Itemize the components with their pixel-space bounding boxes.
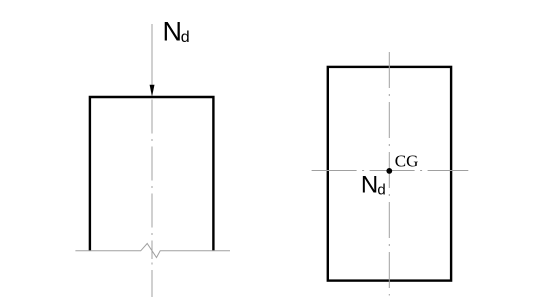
load arrow Nd head: [150, 85, 155, 97]
svg-text:CG: CG: [395, 151, 419, 170]
section vertical centerline: [388, 52, 390, 296]
svg-text:d: d: [181, 29, 190, 46]
label Nd (left): [163, 17, 190, 47]
column centerline (vertical dash-dot): [151, 100, 153, 252]
column outline (left figure): [90, 97, 213, 251]
break line with zigzag (column cut): [75, 244, 230, 258]
section horizontal centerline: [312, 170, 469, 172]
column centerline below break: [151, 251, 153, 297]
svg-text:N: N: [163, 17, 183, 47]
centroid dot CG: [386, 168, 392, 174]
section outline (right figure): [328, 67, 451, 281]
svg-text:N: N: [361, 171, 378, 198]
label Nd (right): [361, 171, 386, 198]
svg-text:d: d: [377, 182, 385, 199]
load arrow Nd shaft: [151, 24, 153, 86]
